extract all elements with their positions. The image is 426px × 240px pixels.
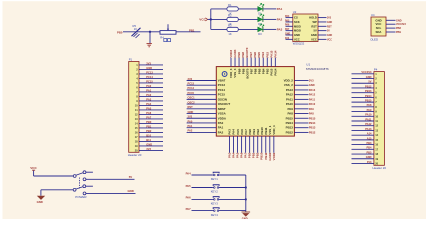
wire to ground [149, 32, 151, 43]
svg-text:VCC: VCC [311, 37, 317, 41]
U4 pin 4 SDA wire and net label PB9 [376, 30, 402, 34]
svg-text:P1: P1 [129, 58, 133, 62]
U1 right pin 32 PA11 wire and net label PA11 [286, 97, 316, 101]
svg-text:5V: 5V [314, 29, 317, 33]
U1 top pin 44 BOOT0 wire and net label BOOT0 [245, 47, 249, 78]
svg-text:PA5: PA5 [146, 106, 151, 110]
svg-text:12: 12 [135, 112, 138, 116]
svg-text:PB12: PB12 [365, 84, 372, 88]
svg-text:PA7: PA7 [186, 207, 192, 211]
U1 right pin 29 PA8 wire and net label PA8 [287, 112, 314, 116]
svg-text:PA13: PA13 [309, 88, 316, 92]
U1 left pin 12 PA2 wire and net label PA2 [187, 129, 224, 135]
U4 pin 3 SCL wire and net label PB8 [376, 26, 402, 30]
net label PA4 [186, 171, 192, 175]
svg-text:10: 10 [135, 103, 138, 107]
svg-text:OSCOUT: OSCOUT [218, 102, 231, 106]
svg-text:OSC2: OSC2 [188, 100, 196, 104]
svg-text:PB14: PB14 [309, 121, 316, 125]
svg-text:PA10: PA10 [309, 102, 316, 106]
P4 pin 2 wire and net label GND [352, 75, 378, 81]
U1 right pin 28 PB15 wire and net label PB15 [286, 116, 316, 120]
U1 right pin 26 PB13 wire and net label PB13 [286, 126, 316, 130]
P1 pin 13 wire and net label PA7 [135, 115, 163, 121]
svg-text:B10: B10 [146, 133, 151, 137]
potentiometer R4 光敏 [160, 24, 176, 41]
connector U4 OLED body [370, 13, 386, 42]
svg-text:PC15: PC15 [218, 93, 226, 97]
wire to GND and net label GND [86, 189, 136, 193]
svg-text:OSCIN: OSCIN [218, 97, 227, 101]
P4 pin 12 wire and net label PA12 [352, 122, 379, 128]
svg-text:PA1: PA1 [146, 88, 151, 92]
U2 pin 5 GND wire and net label GND [285, 33, 300, 37]
U1 bottom pin 17 PA7 wire and net label PA7 [244, 129, 248, 158]
svg-text:18: 18 [135, 139, 138, 143]
P4 pin 8 wire and net label PA8 [352, 103, 378, 109]
svg-text:MISO: MISO [294, 24, 301, 28]
switch S1 POWER (DPDT) [73, 171, 87, 199]
svg-text:20: 20 [375, 161, 378, 165]
P4 pin 9 wire and net label PA9 [352, 108, 378, 114]
svg-text:3V3: 3V3 [146, 61, 151, 65]
P4 pin 3 wire and net label 5V [352, 80, 378, 86]
svg-text:CS: CS [294, 16, 298, 20]
svg-text:R1: R1 [228, 3, 232, 7]
svg-text:3V3: 3V3 [285, 38, 290, 40]
svg-text:PA9: PA9 [287, 107, 293, 111]
svg-text:10: 10 [375, 114, 378, 118]
U1 right pin 33 PA12 wire and net label PA12 [286, 93, 316, 97]
svg-text:PB15: PB15 [365, 99, 372, 103]
svg-text:GND: GND [327, 35, 332, 37]
svg-text:GND: GND [285, 33, 290, 35]
svg-text:1K: 1K [134, 27, 137, 31]
svg-text:RST: RST [311, 24, 317, 28]
svg-text:PB15: PB15 [309, 116, 316, 120]
P4 pin 15 wire and net label A15 [352, 136, 379, 142]
svg-text:PA3: PA3 [146, 97, 151, 101]
svg-text:PA1: PA1 [218, 126, 224, 130]
svg-text:3V3: 3V3 [188, 77, 193, 81]
svg-text:GND: GND [188, 110, 194, 114]
svg-text:PA1: PA1 [277, 7, 283, 11]
U2 pin 1 CS wire and net label PA4 [285, 15, 298, 20]
svg-text:PB13: PB13 [309, 126, 316, 130]
wire VCC to switch [34, 171, 74, 176]
svg-text:GND: GND [294, 33, 300, 37]
svg-text:A15: A15 [367, 136, 372, 140]
U1 top pin 46 PB9 wire and net label PB9 [237, 52, 241, 75]
power port VCC [199, 17, 207, 21]
P4 pin 7 wire and net label PB15 [352, 99, 378, 105]
svg-text:GND: GND [309, 83, 315, 87]
svg-text:PA14: PA14 [274, 68, 278, 75]
svg-text:PA6: PA6 [146, 111, 151, 115]
U1 right pin 30 PA9 wire and net label PA9 [287, 107, 314, 111]
svg-text:PC15: PC15 [146, 79, 153, 83]
P4 pin 16 wire and net label PB3 [352, 141, 379, 147]
svg-text:PA13: PA13 [365, 127, 372, 131]
svg-text:VCC: VCC [327, 39, 332, 41]
svg-text:SDA: SDA [376, 30, 382, 34]
resistor R2 1K [227, 14, 238, 26]
svg-text:PA12: PA12 [365, 122, 372, 126]
svg-text:PA3: PA3 [277, 27, 283, 31]
svg-text:11: 11 [375, 119, 378, 123]
U2 pin 9 5V wire and net label 5V [314, 29, 331, 33]
svg-text:KEY3: KEY3 [211, 202, 219, 206]
svg-text:PB12: PB12 [286, 130, 294, 134]
svg-text:U4: U4 [371, 13, 375, 17]
svg-text:PB14: PB14 [365, 94, 372, 98]
junction node key bus [245, 186, 247, 188]
U2 pin 3 MISO wire and net label PA6 [285, 24, 301, 29]
U1 bottom pin 22 PB11 wire and net label PB11 [264, 127, 268, 160]
svg-text:17: 17 [135, 135, 138, 139]
U1 right pin 25 PB12 wire and net label PB12 [286, 130, 316, 134]
svg-text:PA9: PA9 [309, 107, 314, 111]
svg-text:19: 19 [135, 144, 138, 148]
svg-text:PA10: PA10 [286, 102, 293, 106]
LED D3 [258, 24, 264, 36]
svg-text:PA13: PA13 [286, 88, 293, 92]
P1 pin 14 wire and net label PB0 [135, 120, 163, 126]
net label PA3 [277, 27, 283, 31]
connector P1 Header 20 body [128, 58, 142, 157]
net label PA6 [186, 196, 192, 200]
U1 bottom pin 16 PA6 wire and net label PA6 [240, 129, 244, 158]
U2 pin 11 WP wire and net label GND [312, 20, 332, 24]
svg-text:PA12: PA12 [286, 93, 293, 97]
svg-text:Header 20: Header 20 [128, 153, 142, 157]
svg-text:GND: GND [366, 155, 372, 159]
svg-text:PA7: PA7 [285, 28, 290, 31]
P1 pin 19 wire and net label GND [135, 142, 163, 148]
P1 pin 5 wire and net label PC15 [136, 79, 163, 85]
svg-text:RST: RST [188, 105, 194, 109]
svg-text:18: 18 [375, 152, 378, 156]
svg-text:PA2: PA2 [146, 93, 151, 97]
U1 right pin 36 VDD_2 wire and net label 3V3 [284, 79, 315, 83]
svg-text:PC13: PC13 [146, 70, 153, 74]
svg-text:POWER: POWER [75, 195, 87, 199]
svg-text:PC14: PC14 [188, 86, 195, 90]
P1 pin 18 wire and net label B11 [135, 138, 163, 144]
LED D2 [258, 14, 264, 26]
svg-text:WP: WP [312, 20, 317, 24]
wire LDR row [123, 31, 201, 33]
P4 pin 19 wire and net label GND [352, 155, 379, 161]
wire key bus vertical [245, 175, 247, 212]
svg-text:PB8: PB8 [396, 27, 401, 30]
svg-text:PA4: PA4 [146, 102, 151, 106]
svg-text:16: 16 [375, 143, 378, 147]
svg-text:5V: 5V [368, 80, 371, 84]
svg-text:PA9: PA9 [367, 108, 372, 112]
svg-text:3V3: 3V3 [367, 160, 372, 164]
svg-text:PC13: PC13 [218, 83, 226, 87]
svg-text:GND: GND [366, 75, 372, 79]
U1 right pin 34 PA13 wire and net label PA13 [286, 88, 316, 92]
U1 top pin 42 PB6 wire and net label PB6 [253, 52, 257, 75]
U2 pin 8 GND wire and net label GND [311, 33, 333, 37]
svg-text:PA2: PA2 [188, 129, 193, 133]
P1 pin 3 wire and net label PC13 [136, 70, 163, 76]
svg-text:PB15: PB15 [286, 116, 294, 120]
U1 bottom pin 15 PA5 wire and net label PA5 [236, 129, 240, 158]
svg-text:PB5: PB5 [366, 150, 372, 154]
LED D1 [258, 3, 264, 15]
svg-text:VCC: VCC [30, 166, 37, 170]
svg-text:OLED: OLED [370, 38, 378, 42]
power port GND (red) [147, 44, 152, 47]
svg-text:VDD_2: VDD_2 [284, 79, 294, 83]
svg-text:PB3: PB3 [366, 141, 372, 145]
wire VCC bus vertical [208, 9, 212, 30]
svg-text:PB13: PB13 [286, 126, 294, 130]
U2 pin 2 SCK wire and net label PA5 [285, 19, 300, 24]
U1 left pin 6 OSCOUT wire and net label OSC2 [187, 100, 231, 106]
svg-text:P4: P4 [374, 68, 378, 72]
U1 top pin 45 PB8 wire and net label PB8 [241, 52, 245, 75]
svg-text:12: 12 [375, 124, 378, 128]
IC U2 W25Q32 body [293, 10, 318, 46]
U1 right pin 35 VSS_2 wire and net label GND [284, 83, 315, 87]
svg-text:PB0: PB0 [117, 30, 123, 34]
svg-text:R2: R2 [228, 14, 232, 18]
svg-text:Header 20: Header 20 [373, 166, 387, 170]
svg-text:A14: A14 [367, 132, 372, 136]
svg-text:VBAT: VBAT [218, 79, 226, 83]
svg-text:VDDA: VDDA [218, 116, 227, 120]
svg-text:GND: GND [242, 216, 248, 219]
U1 left pin 7 NRST wire and net label RST [187, 105, 226, 111]
U2 pin 6 VCC wire and net label 3V3 [285, 37, 300, 41]
svg-text:20: 20 [135, 148, 138, 152]
svg-text:PB1: PB1 [189, 28, 195, 32]
U2 pin 4 MOSI wire and net label PA7 [285, 28, 301, 33]
P1 pin 8 wire and net label PA2 [136, 93, 163, 99]
P1 pin 7 wire and net label PA1 [136, 88, 163, 94]
wire key row 3 [192, 198, 246, 200]
svg-text:PA12: PA12 [309, 93, 316, 97]
U2 pin 10 RST wire and net label RST [311, 24, 332, 28]
P4 pin 13 wire and net label PA13 [352, 127, 379, 133]
svg-text:PA10: PA10 [365, 113, 372, 117]
svg-text:U1: U1 [306, 62, 310, 66]
U2 pin 12 HOLD wire and net label 3V3 [309, 16, 332, 20]
svg-text:GND: GND [128, 189, 134, 193]
svg-text:STM32F103C8T6: STM32F103C8T6 [306, 67, 329, 71]
svg-text:3V3: 3V3 [188, 115, 193, 119]
wire LED branch 3 [211, 28, 276, 30]
U1 bottom pin 21 PB10 wire and net label PB10 [260, 127, 264, 160]
wire GND to switch [41, 190, 73, 196]
svg-text:PA0: PA0 [218, 121, 224, 125]
svg-text:GND: GND [396, 19, 402, 22]
op: MCU U1 STM32F103C8T6 body [216, 67, 294, 137]
P1 pin 6 wire and net label PA0 [136, 84, 163, 90]
svg-text:PA8: PA8 [309, 112, 314, 116]
P1 pin 20 wire and net label 3V3 [135, 147, 163, 153]
svg-text:PA11: PA11 [365, 117, 372, 121]
U1 bottom pin 18 PB0 wire and net label PB0 [248, 129, 252, 159]
svg-text:VCC: VCC [294, 37, 300, 41]
svg-text:PB4: PB4 [366, 146, 372, 150]
wire LED branch 1 [211, 8, 276, 10]
svg-text:17: 17 [375, 147, 378, 151]
U1 right pin 27 PB14 wire and net label PB14 [286, 121, 316, 125]
U1 top pin 37 PA14 wire and net label PA14 [273, 50, 277, 75]
wire key row 2 [192, 187, 246, 189]
svg-text:NRST: NRST [218, 107, 226, 111]
U1 top pin 40 PB4 wire and net label PB4 [261, 52, 265, 75]
U1 left pin 9 VDDA wire and net label 3V3 [187, 115, 227, 121]
U1 bottom pin 23 VSS_1 wire and net label GND1 [268, 125, 272, 160]
svg-text:PA6: PA6 [285, 24, 290, 27]
U1 designator and part number [306, 62, 329, 71]
U1 bottom pin 19 PB1 wire and net label PB1 [252, 129, 256, 159]
resistor R3 1K [227, 24, 238, 36]
P1 pin 17 wire and net label B10 [135, 133, 163, 139]
junction node [149, 31, 151, 33]
svg-text:PC14: PC14 [218, 88, 226, 92]
svg-text:PA0: PA0 [146, 84, 151, 88]
U4 pin 2 VCC wire and net label VCC3V3 [376, 22, 407, 26]
svg-text:PB12: PB12 [309, 130, 316, 134]
svg-text:PA0: PA0 [188, 119, 193, 123]
svg-text:GND: GND [146, 66, 152, 70]
U4 pin 1 GND wire and net label GND [375, 18, 401, 22]
svg-text:R3: R3 [228, 24, 232, 28]
svg-text:PA8: PA8 [367, 103, 372, 107]
net label PA5 [186, 184, 192, 188]
svg-text:13: 13 [375, 128, 378, 132]
svg-text:15: 15 [135, 126, 138, 130]
U1 top pin 43 PB7 wire and net label PB7 [249, 52, 253, 75]
push button KEY4 [211, 208, 220, 217]
U1 bottom pin 13 PA3 wire and net label PA3 [228, 129, 232, 158]
svg-text:U2: U2 [293, 10, 297, 14]
P1 pin 4 wire and net label PC14 [136, 75, 163, 81]
P4 pin 11 wire and net label PA11 [352, 117, 379, 123]
svg-text:PB1: PB1 [146, 124, 152, 128]
U1 left pin 3 PC14 wire and net label PC14 [187, 86, 226, 92]
U1 top pin 41 PB5 wire and net label PB5 [257, 52, 261, 75]
svg-text:PA11: PA11 [309, 97, 316, 101]
net label PA7 [186, 207, 192, 211]
svg-text:KEY4: KEY4 [211, 213, 219, 217]
svg-text:PC14: PC14 [146, 75, 153, 79]
svg-text:PA4: PA4 [186, 171, 192, 175]
svg-text:PA5: PA5 [186, 184, 192, 188]
svg-text:PA7: PA7 [146, 115, 151, 119]
wire key row 1 [192, 174, 246, 176]
svg-text:VCC3V3: VCC3V3 [361, 70, 372, 74]
svg-text:16: 16 [135, 130, 138, 134]
svg-text:PB13: PB13 [365, 89, 372, 93]
svg-text:13: 13 [135, 117, 138, 121]
svg-text:HOLD: HOLD [309, 16, 317, 20]
svg-text:B11: B11 [146, 138, 151, 142]
svg-text:19: 19 [375, 157, 378, 161]
photoresistor R5 [132, 24, 141, 38]
U1 left pin 11 PA1 wire and net label PA1 [187, 124, 224, 130]
wire to 5V and net label 5V [86, 175, 135, 179]
junction node key bus [245, 198, 247, 200]
P1 pin 1 wire and net label 3V3 [136, 61, 163, 67]
push button KEY3 [211, 197, 220, 206]
svg-text:3V3: 3V3 [146, 147, 151, 151]
P1 pin 12 wire and net label PA6 [135, 111, 163, 117]
svg-text:14: 14 [375, 133, 378, 137]
svg-text:PB2: PB2 [146, 129, 152, 133]
wire LED branch 2 [211, 18, 276, 20]
P4 pin 18 wire and net label PB5 [352, 150, 379, 156]
svg-text:PB9: PB9 [396, 31, 401, 34]
svg-text:PA4: PA4 [285, 15, 290, 18]
power port VCC (switch) [30, 166, 37, 170]
svg-text:VDD1: VDD1 [272, 152, 276, 160]
U1 left pin 4 PC15 wire and net label PC15 [187, 91, 226, 97]
svg-text:PB14: PB14 [286, 121, 294, 125]
push button KEY2 [211, 185, 220, 194]
svg-text:15: 15 [375, 138, 378, 142]
svg-text:3V3: 3V3 [309, 79, 314, 83]
svg-text:GND: GND [146, 142, 152, 146]
U1 top pin 39 PB3 wire and net label PB3 [265, 52, 269, 75]
P1 pin 10 wire and net label PA4 [135, 102, 163, 108]
U1 top pin 47 VSS_3 wire and net label GND3 [233, 49, 237, 77]
U1 left pin 5 OSCIN wire and net label OSC1 [187, 96, 227, 102]
U1 top pin 48 VDD_3 wire and net label VDD3 [229, 49, 233, 77]
svg-text:VCC3V3: VCC3V3 [396, 23, 406, 26]
svg-text:OSC1: OSC1 [188, 96, 196, 100]
ground symbol (keys) [242, 212, 251, 220]
P4 pin 5 wire and net label PB13 [352, 89, 378, 95]
U1 left pin 1 VBAT wire and net label 3V3 [187, 77, 226, 83]
svg-text:PB0: PB0 [146, 120, 152, 124]
U2 pin 7 VCC wire and net label VCC [311, 37, 332, 41]
U1 bottom pin 24 VDD_1 wire and net label VDD1 [272, 125, 276, 160]
P1 pin 9 wire and net label PA3 [136, 97, 163, 103]
U1 left pin 10 PA0 wire and net label PA0 [187, 119, 224, 125]
svg-text:D3: D3 [258, 32, 262, 36]
svg-text:KEY2: KEY2 [211, 190, 219, 194]
svg-text:KEY1: KEY1 [211, 177, 219, 181]
svg-text:14: 14 [135, 121, 138, 125]
U1 right pin 31 PA10 wire and net label PA10 [286, 102, 316, 106]
svg-text:PA6: PA6 [186, 196, 192, 200]
U1 top pin 38 PA15 wire and net label PA15 [269, 50, 273, 75]
U1 left pin 2 PC13 wire and net label PC13 [187, 82, 226, 88]
svg-text:11: 11 [135, 108, 138, 112]
P1 pin 11 wire and net label PA5 [135, 106, 163, 112]
svg-text:PA14: PA14 [273, 50, 277, 57]
P1 pin 2 wire and net label GND [136, 66, 163, 72]
net label PB0 (LDR input) [117, 30, 123, 34]
svg-text:PA2: PA2 [277, 17, 283, 21]
P4 pin 20 wire and net label 3V3 [352, 160, 379, 166]
net label PA2 [277, 17, 283, 21]
svg-text:PA11: PA11 [286, 97, 293, 101]
ground symbol (power) [37, 196, 46, 205]
svg-text:W25Q32: W25Q32 [293, 42, 305, 46]
svg-text:VSSA: VSSA [218, 112, 227, 116]
P4 pin 10 wire and net label PA10 [352, 113, 379, 119]
P4 pin 1 wire and net label VCC3V3 [352, 70, 378, 76]
